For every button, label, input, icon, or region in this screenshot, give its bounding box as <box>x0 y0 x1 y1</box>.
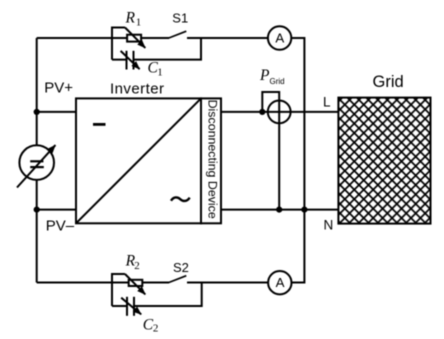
svg-text:2: 2 <box>153 322 159 334</box>
svg-text:PV+: PV+ <box>44 80 73 97</box>
svg-text:Grid: Grid <box>270 77 285 86</box>
svg-text:L: L <box>323 94 331 109</box>
svg-text:PV–: PV– <box>46 217 75 234</box>
svg-text:Grid: Grid <box>373 73 404 91</box>
svg-text:2: 2 <box>134 260 140 272</box>
svg-text:N: N <box>324 217 334 232</box>
svg-text:A: A <box>275 30 284 45</box>
svg-text:R: R <box>125 9 136 26</box>
svg-text:S1: S1 <box>172 11 188 26</box>
svg-text:A: A <box>276 275 285 290</box>
svg-text:S2: S2 <box>173 260 189 275</box>
svg-text:P: P <box>259 67 270 84</box>
svg-text:1: 1 <box>136 16 142 28</box>
svg-text:Inverter: Inverter <box>110 81 164 98</box>
svg-text:Disconnecting Device: Disconnecting Device <box>206 100 220 219</box>
svg-text:1: 1 <box>157 67 163 79</box>
